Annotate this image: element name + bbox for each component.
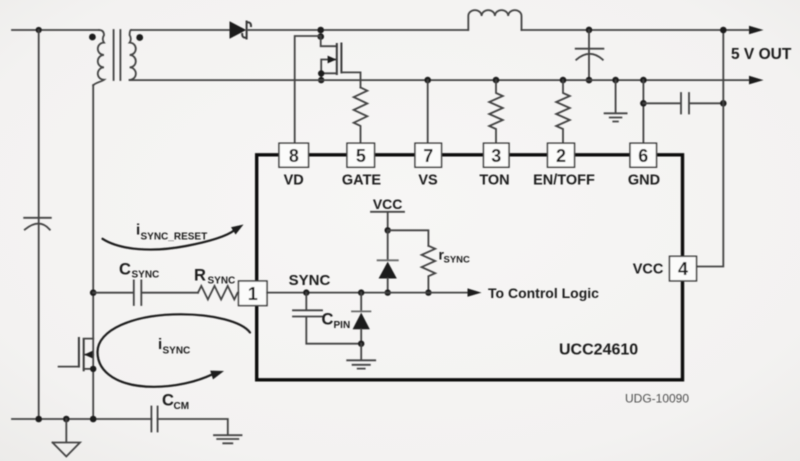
chassis ground: [53, 419, 81, 457]
wire sync internal: [267, 292, 468, 294]
svg-text:GATE: GATE: [342, 173, 382, 189]
node cpin junction: [303, 289, 309, 295]
node csync left: [90, 289, 97, 296]
node drain junction lower: [317, 33, 324, 40]
svg-text:R: R: [194, 267, 206, 285]
wire VD tap: [295, 36, 321, 144]
transistor Q2 SR mosfet: [321, 37, 337, 47]
svg-text:C: C: [322, 311, 334, 329]
arrow to control logic: [468, 288, 482, 296]
wire bottom rail: [12, 418, 151, 420]
arrow i sync reset: [103, 231, 235, 250]
svg-text:4: 4: [678, 259, 688, 279]
svg-text:SYNC: SYNC: [132, 270, 160, 281]
node vcc cap left: [640, 100, 647, 107]
arrow 5V out top: [749, 26, 764, 35]
svg-text:C: C: [162, 392, 174, 410]
node VS junction: [424, 77, 431, 84]
pin 8: [279, 143, 309, 167]
wire primary lead down: [92, 85, 94, 419]
svg-text:5: 5: [356, 146, 366, 166]
transformer T1 secondary winding: [130, 30, 136, 80]
capacitor C-out: [576, 30, 604, 80]
node TON junction: [493, 77, 500, 84]
wire top rail inductor to out: [522, 29, 750, 31]
pin 5: [347, 143, 375, 167]
diode D-clamp-down: [360, 293, 362, 312]
resistor R-TON: [489, 80, 503, 143]
inductor L1: [468, 10, 521, 30]
svg-text:TON: TON: [479, 173, 509, 189]
svg-text:SYNC: SYNC: [163, 346, 191, 357]
svg-text:1: 1: [248, 284, 258, 304]
pin 6: [630, 143, 657, 167]
node ENTOFF junction: [560, 77, 567, 84]
svg-text:6: 6: [638, 146, 648, 166]
resistor R-gate: [354, 88, 368, 144]
transformer T1 primary phase dot: [89, 34, 96, 41]
node cap out top: [586, 27, 593, 34]
node clamp down junction: [358, 289, 364, 295]
svg-text:VCC: VCC: [633, 262, 664, 278]
svg-text:8: 8: [289, 146, 299, 166]
node vcc cap right: [720, 100, 727, 107]
svg-text:SYNC_RESET: SYNC_RESET: [141, 232, 208, 243]
capacitor C-CM: [151, 407, 157, 432]
capacitor C-sync: [93, 280, 198, 305]
arrow i sync loop: [98, 314, 251, 387]
node bottom chassis: [63, 416, 70, 423]
ground secondary: [605, 80, 627, 121]
ground after CCM: [158, 419, 242, 443]
capacitor C-input: [24, 218, 51, 230]
transformer T1 primary winding: [93, 30, 104, 86]
transistor Q1 primary mosfet: [83, 339, 85, 370]
pin 7: [415, 143, 442, 167]
resistor r-sync: [422, 246, 436, 293]
wire VCC rail right: [697, 30, 723, 267]
node GND branch: [640, 77, 647, 84]
node ground secondary junction: [612, 77, 619, 84]
pin 4: [670, 256, 697, 281]
node input junction: [36, 27, 42, 33]
svg-text:2: 2: [556, 146, 566, 166]
svg-text:VD: VD: [284, 173, 304, 189]
diode D1 schottky: [230, 21, 247, 38]
svg-text:VCC: VCC: [373, 196, 403, 212]
svg-text:PIN: PIN: [334, 320, 351, 331]
diode D-clamp-up: [387, 230, 389, 259]
wire second rail: [130, 79, 750, 81]
pin 2: [548, 143, 575, 167]
node vcc top: [720, 27, 727, 34]
wire input cap branch upper: [38, 30, 40, 419]
svg-text:5 V OUT: 5 V OUT: [731, 46, 792, 63]
svg-text:VS: VS: [418, 173, 438, 189]
arrow 5V out return: [749, 76, 764, 85]
svg-text:C: C: [119, 261, 131, 279]
svg-text:GND: GND: [628, 173, 660, 189]
transformer T1 core: [114, 30, 121, 80]
svg-text:SYNC: SYNC: [289, 272, 331, 289]
wire GND down: [642, 80, 644, 143]
wire top rail diode to mosfet node: [247, 29, 468, 31]
svg-text:CM: CM: [174, 401, 190, 412]
svg-text:EN/TOFF: EN/TOFF: [533, 173, 595, 189]
wire vcc to rsync: [388, 230, 429, 246]
svg-text:7: 7: [423, 146, 433, 166]
resistor R-EN: [556, 80, 570, 143]
svg-text:SYNC: SYNC: [444, 255, 471, 266]
capacitor C-vcc: [643, 93, 723, 114]
resistor R-sync: [198, 286, 239, 300]
IC UCC24610 body: [257, 155, 683, 380]
svg-text:To Control Logic: To Control Logic: [488, 285, 599, 301]
svg-text:UCC24610: UCC24610: [559, 342, 638, 359]
ground internal: [347, 344, 375, 369]
transformer T1 secondary phase dot: [136, 34, 143, 41]
pin 3: [484, 143, 510, 167]
node bottom primary: [90, 416, 97, 423]
pin 1: [239, 281, 268, 306]
capacitor C-pin: [293, 293, 361, 344]
node bottom left: [35, 416, 42, 423]
node vcc int: [385, 227, 391, 233]
svg-text:UDG-10090: UDG-10090: [625, 392, 689, 406]
node drain junction upper: [317, 27, 324, 34]
wire VS: [427, 80, 429, 143]
svg-text:3: 3: [491, 146, 501, 166]
wire top rail to diode: [131, 29, 230, 31]
wire top rail left: [12, 29, 99, 31]
svg-text:SYNC: SYNC: [208, 276, 236, 287]
